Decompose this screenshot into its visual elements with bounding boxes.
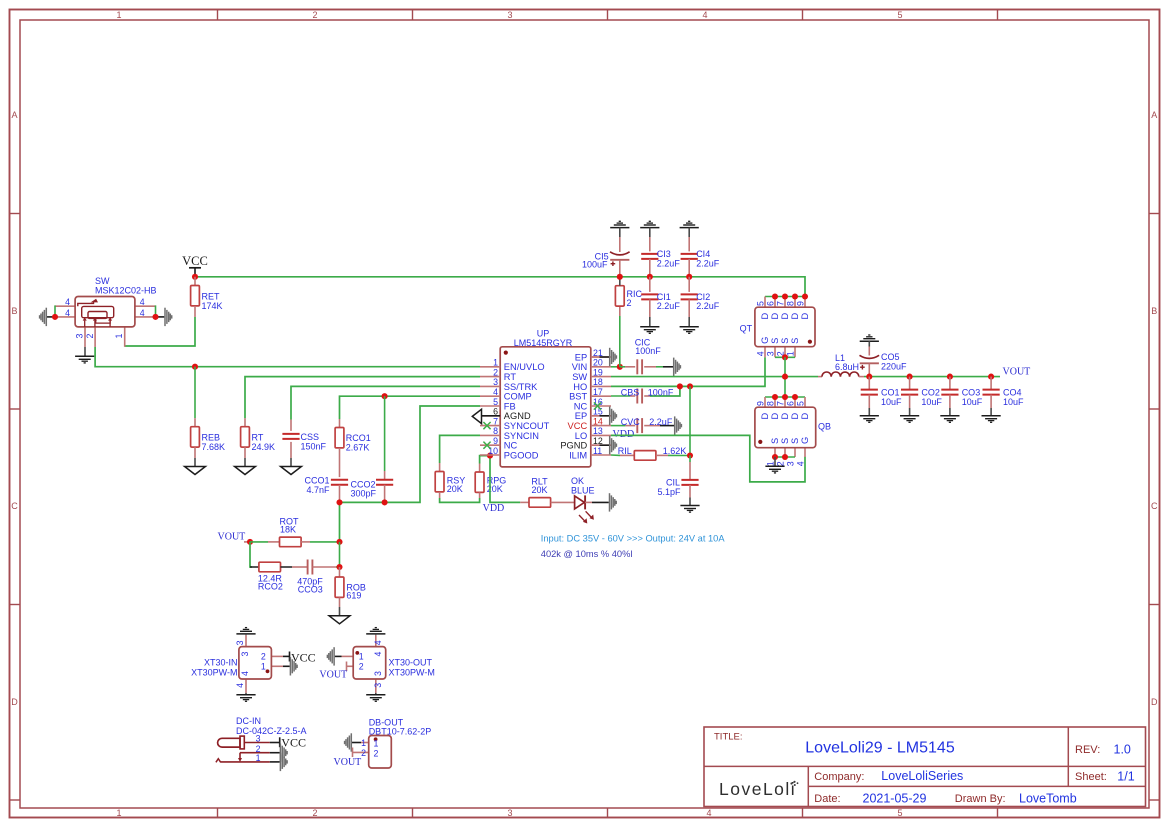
svg-text:SYNCOUT: SYNCOUT	[504, 421, 550, 431]
svg-text:VCC: VCC	[568, 421, 588, 431]
capacitor CIL 5.1pF	[657, 456, 698, 506]
junction FB-ROB	[336, 564, 342, 570]
svg-text:Date:: Date:	[814, 793, 840, 805]
svg-text:2.2uF: 2.2uF	[696, 301, 720, 311]
junction FB-CCO1	[336, 499, 342, 505]
ground CIL	[680, 506, 699, 513]
svg-text:SW: SW	[95, 276, 110, 286]
svg-text:AGND: AGND	[504, 411, 531, 421]
junction PGOOD	[487, 453, 493, 459]
ground pin15 EP	[591, 407, 617, 425]
ground above XT30-IN	[236, 628, 255, 636]
capacitor CCO1 4.7nF	[304, 475, 348, 502]
wire RSY-RPG bottoms	[440, 498, 480, 502]
resistor RLT 20K	[520, 476, 574, 507]
svg-text:MSK12C02-HB: MSK12C02-HB	[95, 286, 157, 296]
svg-text:2: 2	[85, 334, 95, 339]
svg-text:C: C	[1151, 501, 1158, 511]
svg-text:4: 4	[373, 652, 383, 657]
wire VIN up to RIC	[619, 316, 621, 367]
svg-text:EP: EP	[575, 352, 587, 362]
power flag VCC DC-IN	[280, 736, 306, 750]
AGND net arrow flag	[472, 409, 500, 423]
svg-text:D: D	[800, 313, 810, 320]
svg-text:1: 1	[359, 652, 364, 662]
svg-text:VDD: VDD	[483, 503, 505, 514]
svg-text:8: 8	[493, 426, 498, 436]
svg-text:A: A	[11, 110, 17, 120]
connector XT30-IN XT30PW-M	[191, 635, 290, 694]
resistor RIL 1.62K	[611, 446, 690, 460]
junction ROT-FB	[336, 539, 342, 545]
no-connect X pin9	[483, 442, 490, 449]
svg-text:B: B	[11, 306, 17, 316]
ground CO3	[940, 416, 959, 423]
svg-text:2.2uF: 2.2uF	[649, 417, 673, 427]
svg-text:4: 4	[373, 640, 383, 645]
svg-text:5.1pF: 5.1pF	[657, 487, 681, 497]
svg-text:NC: NC	[574, 401, 588, 411]
svg-text:D: D	[790, 413, 800, 420]
wire PGOOD to RPG	[480, 456, 490, 464]
svg-text:VOUT: VOUT	[319, 669, 347, 680]
svg-text:RET: RET	[202, 292, 221, 302]
svg-text:S: S	[780, 338, 790, 344]
svg-text:G: G	[760, 337, 770, 344]
capacitor CI3 2.2uF	[641, 237, 680, 274]
svg-text:7: 7	[776, 401, 786, 406]
svg-text:19: 19	[593, 367, 603, 377]
ground left of SW	[40, 308, 47, 326]
svg-text:D: D	[790, 313, 800, 320]
svg-text:SYNCIN: SYNCIN	[504, 431, 539, 441]
svg-text:1: 1	[114, 334, 124, 339]
ground CSS	[281, 467, 302, 475]
net flag VDD (LO rail)	[613, 429, 635, 440]
svg-text:D: D	[760, 413, 770, 420]
svg-text:4: 4	[235, 683, 245, 688]
svg-text:CO3: CO3	[962, 387, 981, 397]
svg-text:Sheet:: Sheet:	[1075, 771, 1107, 783]
logo LoveLoli	[719, 779, 798, 799]
svg-text:4: 4	[756, 351, 766, 356]
wire RT net	[245, 377, 480, 419]
ground above CO5	[860, 335, 879, 347]
wire QB sources	[775, 456, 795, 458]
svg-text:RIL: RIL	[618, 446, 632, 456]
resistor RCO2 12.4R	[250, 562, 292, 591]
net flag VOUT (output rail)	[1003, 366, 1031, 377]
wire QT source to SW	[784, 357, 786, 397]
junction VCC-CI3	[647, 274, 653, 280]
svg-text:3: 3	[256, 734, 261, 744]
ground CO1	[860, 416, 879, 423]
capacitor CBS 100nF	[611, 386, 680, 403]
svg-text:1: 1	[261, 662, 266, 672]
svg-text:2021-05-29: 2021-05-29	[863, 792, 927, 806]
svg-text:8: 8	[766, 401, 776, 406]
junction QT drain x775	[772, 293, 778, 299]
svg-text:9: 9	[756, 401, 766, 406]
ground XT30-IN pin1	[290, 657, 297, 675]
wire LO to QB gate	[611, 435, 805, 482]
svg-text:4: 4	[240, 671, 250, 676]
svg-text:1.0: 1.0	[1114, 743, 1131, 757]
wire SW node	[611, 376, 818, 378]
svg-text:2: 2	[493, 367, 498, 377]
svg-text:2: 2	[261, 652, 266, 662]
svg-text:14: 14	[593, 416, 603, 426]
svg-text:S: S	[780, 438, 790, 444]
svg-text:Company:: Company:	[814, 771, 864, 783]
wire RET bottom to SW pin1	[125, 317, 195, 346]
svg-text:4.7nF: 4.7nF	[306, 485, 330, 495]
capacitor CI5 100uF (polarized)	[582, 237, 630, 274]
svg-text:3: 3	[240, 652, 250, 657]
svg-text:LO: LO	[575, 431, 587, 441]
svg-text:9: 9	[493, 436, 498, 446]
ground DB-OUT pin1	[345, 733, 352, 751]
svg-text:3: 3	[373, 683, 383, 688]
svg-text:1/1: 1/1	[1117, 770, 1134, 784]
wire PGOOD down to VDD	[490, 456, 520, 503]
svg-text:S: S	[770, 338, 780, 344]
ground XT30-OUT pin1	[327, 647, 334, 665]
svg-text:VCC: VCC	[182, 254, 208, 268]
svg-text:XT30-OUT: XT30-OUT	[389, 658, 433, 668]
svg-text:B: B	[1151, 306, 1157, 316]
junction HO-CBS	[677, 383, 683, 389]
svg-text:BLUE: BLUE	[571, 485, 595, 495]
capacitor CO5 220uF (polarized)	[860, 347, 908, 375]
svg-text:DC-042C-Z-2.5-A: DC-042C-Z-2.5-A	[236, 726, 307, 736]
svg-text:3: 3	[75, 334, 85, 339]
svg-text:4: 4	[65, 308, 70, 318]
wire FB net	[340, 406, 481, 542]
svg-text:300pF: 300pF	[351, 489, 377, 499]
transistor QT (high-side MOSFET)	[740, 297, 815, 358]
ground QB source	[765, 457, 784, 473]
svg-text:3: 3	[493, 377, 498, 387]
capacitor CCO2 300pF	[351, 471, 394, 502]
svg-text:3: 3	[786, 461, 796, 466]
ground CIC	[674, 358, 681, 376]
capacitor CCO3 470pF	[292, 560, 340, 595]
junction RIL-CIL	[687, 452, 693, 458]
svg-text:100uF: 100uF	[582, 260, 608, 270]
resistor RCO1 2.67K	[335, 419, 371, 477]
connector DC-IN DC-042C-Z-2.5-A	[216, 716, 307, 763]
svg-text:7: 7	[493, 416, 498, 426]
wire SW pin2 to EN/UVLO	[95, 347, 480, 367]
net flag VOUT DB-OUT	[334, 748, 362, 769]
capacitor CI1 2.2uF	[641, 277, 680, 327]
wire SS/TRK net	[291, 386, 480, 419]
junction HO-RIL branch	[687, 383, 693, 389]
svg-text:10uF: 10uF	[921, 397, 942, 407]
wire FB down	[339, 542, 341, 567]
svg-text:EP: EP	[575, 411, 587, 421]
svg-text:VCC: VCC	[281, 736, 306, 750]
svg-text:3: 3	[507, 808, 512, 818]
svg-text:C: C	[11, 501, 18, 511]
note input/output spec	[541, 534, 726, 544]
power flag VCC XT30-IN	[290, 651, 316, 665]
svg-text:REV:: REV:	[1075, 744, 1100, 756]
junction VCC/RET	[192, 274, 198, 280]
svg-text:SW: SW	[572, 372, 587, 382]
svg-text:A: A	[1151, 110, 1157, 120]
junction QB source2	[782, 454, 788, 460]
no-connect X pin16	[594, 402, 601, 409]
ground pin12 PGND	[591, 436, 617, 454]
capacitor CVC 2.2uF	[611, 417, 674, 433]
svg-text:2: 2	[776, 461, 786, 466]
svg-text:4: 4	[140, 297, 145, 307]
resistor RIC 2	[615, 279, 642, 316]
svg-text:5: 5	[897, 808, 902, 818]
junction VCC-CI5	[617, 274, 623, 280]
svg-text:18K: 18K	[280, 524, 296, 534]
svg-text:QB: QB	[818, 422, 831, 432]
svg-text:RCO2: RCO2	[258, 582, 283, 592]
svg-text:1: 1	[361, 738, 366, 748]
svg-text:Drawn By:: Drawn By:	[955, 793, 1006, 805]
junction VOUT-CO1	[866, 374, 872, 380]
ground REB	[185, 467, 206, 475]
svg-text:2.2uF: 2.2uF	[696, 258, 720, 268]
junction SW right pins	[152, 314, 158, 320]
ground above CI5	[610, 221, 629, 237]
svg-text:100nF: 100nF	[635, 346, 661, 356]
svg-text:1: 1	[116, 10, 121, 20]
svg-text:2.2uF: 2.2uF	[657, 301, 681, 311]
power flag VCC (main input rail)	[182, 254, 208, 274]
svg-text:402k @ 10ms % 40%l: 402k @ 10ms % 40%l	[541, 549, 633, 559]
resistor RSY 20K	[435, 463, 465, 498]
svg-text:CO5: CO5	[881, 352, 900, 362]
svg-text:2.2uF: 2.2uF	[657, 258, 681, 268]
capacitor CI2 2.2uF	[681, 277, 720, 327]
connector XT30-OUT XT30PW-M	[335, 635, 435, 694]
resistor RET 174K	[191, 277, 223, 317]
svg-text:4: 4	[65, 297, 70, 307]
svg-text:SS/TRK: SS/TRK	[504, 382, 538, 392]
svg-text:D: D	[800, 413, 810, 420]
svg-text:2: 2	[627, 298, 632, 308]
capacitor CO3 10uF	[941, 377, 982, 416]
wire SYNCIN net	[440, 435, 480, 463]
svg-text:2: 2	[361, 748, 366, 758]
svg-text:XT30PW-M: XT30PW-M	[389, 668, 435, 678]
net flag VOUT XT30-OUT	[319, 662, 347, 681]
junction QB source1	[772, 454, 778, 460]
svg-text:3: 3	[373, 671, 383, 676]
wire VOUT down to RCO2	[250, 542, 252, 567]
ground below XT30-OUT	[366, 695, 385, 702]
svg-text:24.9K: 24.9K	[252, 442, 276, 452]
svg-text:150nF: 150nF	[301, 441, 327, 451]
svg-text:CO4: CO4	[1003, 387, 1022, 397]
LED OK BLUE	[571, 476, 609, 524]
wire VOUT to ROT	[250, 541, 268, 543]
svg-text:EN/UVLO: EN/UVLO	[504, 362, 545, 372]
svg-text:VOUT: VOUT	[334, 757, 362, 768]
svg-text:5: 5	[796, 401, 806, 406]
svg-text:8: 8	[786, 301, 796, 306]
svg-text:17: 17	[593, 387, 603, 397]
svg-text:6: 6	[786, 401, 796, 406]
note switching freq	[541, 549, 633, 559]
svg-text:6.8uH: 6.8uH	[835, 362, 859, 372]
ground CO2	[900, 416, 919, 423]
svg-text:D: D	[1151, 697, 1158, 707]
ground ROB	[329, 616, 350, 624]
resistor REB 7.68K	[191, 418, 225, 466]
wire down to REB	[194, 367, 196, 419]
svg-text:PGOOD: PGOOD	[504, 450, 539, 460]
capacitor CIC 100nF	[620, 337, 673, 374]
junction FB-CCO2	[382, 499, 388, 505]
svg-text:D: D	[11, 697, 18, 707]
svg-text:QT: QT	[740, 324, 753, 334]
svg-text:4: 4	[702, 10, 707, 20]
wire COMP net	[340, 396, 481, 419]
svg-text:HO: HO	[573, 382, 587, 392]
svg-text:CO2: CO2	[921, 387, 940, 397]
inductor L1 6.8uH	[818, 353, 864, 377]
svg-text:XT30-IN: XT30-IN	[204, 658, 238, 668]
svg-text:TITLE:: TITLE:	[714, 732, 743, 743]
svg-text:VOUT: VOUT	[1003, 366, 1031, 377]
svg-text:CCO1: CCO1	[304, 475, 329, 485]
junction SW left pins	[52, 314, 58, 320]
svg-text:NC: NC	[504, 441, 518, 451]
junction VOUT-CO4	[988, 374, 994, 380]
svg-text:2: 2	[312, 808, 317, 818]
ground LED	[610, 493, 617, 511]
switch SW MSK12C02-HB	[47, 276, 164, 347]
junction QT drain x785	[782, 293, 788, 299]
capacitor CO1 10uF	[861, 377, 902, 416]
junction COMP-CCO2	[382, 393, 388, 399]
svg-text:3: 3	[507, 10, 512, 20]
svg-text:D: D	[780, 413, 790, 420]
svg-text:1.62K: 1.62K	[663, 446, 687, 456]
svg-text:VOUT: VOUT	[218, 531, 246, 542]
junction QT drain x795	[792, 293, 798, 299]
svg-text:ILIM: ILIM	[569, 450, 587, 460]
resistor ROT 18K	[268, 516, 340, 546]
ground pin21 EP	[591, 348, 617, 366]
svg-text:20: 20	[593, 358, 603, 368]
svg-text:G: G	[800, 437, 810, 444]
ground CI2	[680, 327, 699, 334]
ground below XT30-IN	[236, 695, 255, 702]
ground CVC	[675, 416, 682, 434]
svg-text:13: 13	[593, 426, 603, 436]
svg-text:LM5145RGYR: LM5145RGYR	[514, 338, 573, 348]
ground DC-IN pin1	[280, 753, 287, 771]
svg-text:20K: 20K	[447, 484, 463, 494]
svg-text:3: 3	[766, 351, 776, 356]
svg-text:VDD: VDD	[613, 429, 635, 440]
svg-text:7.68K: 7.68K	[202, 442, 226, 452]
svg-text:5: 5	[897, 10, 902, 20]
svg-text:S: S	[770, 438, 780, 444]
ground right of SW	[165, 308, 172, 326]
transistor QB (low-side MOSFET)	[755, 397, 831, 466]
ground CO4	[982, 416, 1001, 423]
svg-text:100nF: 100nF	[648, 387, 674, 397]
svg-text:LoveLoli: LoveLoli	[719, 779, 796, 799]
svg-text:CBS: CBS	[621, 387, 640, 397]
ground above CI3	[640, 221, 659, 237]
net flag VDD (lower)	[483, 503, 505, 514]
svg-text:1: 1	[116, 808, 121, 818]
svg-text:CO1: CO1	[881, 387, 900, 397]
junction VOUT-CO2	[907, 374, 913, 380]
junction QB drain x775	[772, 394, 778, 400]
svg-text:Input: DC 35V - 60V >>> Output: Input: DC 35V - 60V >>> Output: 24V at 1…	[541, 534, 726, 544]
wire VCC rail horizontal to QT	[195, 277, 805, 297]
svg-text:6: 6	[766, 301, 776, 306]
svg-text:9: 9	[796, 301, 806, 306]
junction SW-QT	[782, 374, 788, 380]
junction VCC-CI4	[686, 274, 692, 280]
svg-text:LoveTomb: LoveTomb	[1019, 792, 1077, 806]
no-connect X pin7	[483, 422, 490, 429]
svg-text:S: S	[790, 338, 800, 344]
svg-text:4: 4	[493, 387, 498, 397]
capacitor CO2 10uF	[901, 377, 942, 416]
svg-text:10uF: 10uF	[962, 397, 983, 407]
svg-text:10uF: 10uF	[881, 397, 902, 407]
junction QB drain x795	[792, 394, 798, 400]
svg-text:VIN: VIN	[572, 362, 588, 372]
svg-text:3: 3	[235, 640, 245, 645]
ground CI1	[640, 327, 659, 334]
connector DB-OUT DBT10-7.62-2P	[352, 717, 431, 768]
ground DC-IN pin2	[280, 744, 287, 762]
wire CCO2 top	[384, 396, 386, 471]
svg-text:PGND: PGND	[560, 441, 587, 451]
resistor RPG 20K	[475, 464, 506, 499]
svg-text:XT30PW-M: XT30PW-M	[191, 668, 237, 678]
svg-text:D: D	[780, 313, 790, 320]
junction VIN	[617, 364, 623, 370]
svg-text:1: 1	[256, 753, 261, 763]
svg-text:7: 7	[776, 301, 786, 306]
svg-text:RT: RT	[504, 372, 517, 382]
junction EN/UVLO-REB	[192, 364, 198, 370]
svg-text:CVC: CVC	[621, 417, 641, 427]
svg-text:4: 4	[796, 461, 806, 466]
junction QT source	[782, 354, 788, 360]
svg-text:D: D	[770, 313, 780, 320]
svg-text:2: 2	[374, 749, 379, 759]
svg-text:FB: FB	[504, 401, 516, 411]
svg-text:220uF: 220uF	[881, 362, 907, 372]
wire HO to RIL node	[689, 386, 691, 455]
svg-text:174K: 174K	[202, 301, 223, 311]
svg-text:2.67K: 2.67K	[346, 442, 370, 452]
svg-text:1: 1	[374, 739, 379, 749]
svg-text:LoveLoli29 - LM5145: LoveLoli29 - LM5145	[805, 740, 955, 757]
svg-text:D: D	[770, 413, 780, 420]
svg-text:4: 4	[706, 808, 711, 818]
svg-text:LoveLoliSeries: LoveLoliSeries	[881, 769, 963, 783]
